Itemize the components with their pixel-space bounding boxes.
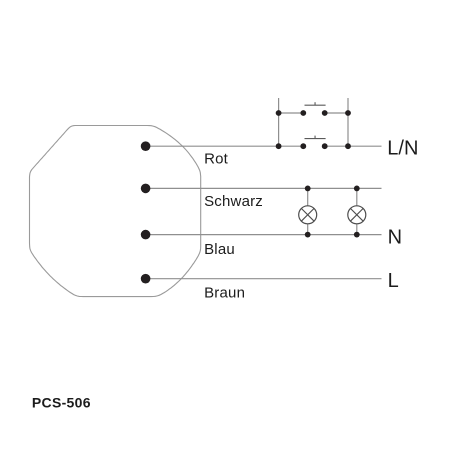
svg-text:N: N	[388, 227, 402, 249]
push-button S1 (upper branch, normally-open)	[300, 102, 327, 116]
terminal 1 Rot	[141, 141, 151, 151]
junction: switch branch left top	[276, 110, 282, 116]
junction: lamp E1 top	[305, 186, 311, 192]
svg-text:Rot: Rot	[204, 150, 229, 167]
junction: switch branch right on L/N line	[345, 143, 351, 149]
wire upper switch branch rail (right segment from S1)	[325, 112, 348, 114]
wire upper switch branch rail (left segment to S1)	[279, 112, 304, 114]
junction: lamp E2 bottom	[354, 232, 360, 238]
terminal 3 Blau	[141, 230, 151, 240]
terminal 2 Schwarz	[141, 184, 151, 194]
lamp E2	[348, 188, 366, 234]
wire left vertical of switch branch (with stub above)	[278, 98, 280, 146]
wire Rot (L/N line, left segment to push-button S2)	[146, 145, 304, 147]
junction: switch branch right top	[345, 110, 351, 116]
junction: lamp E1 bottom	[305, 232, 311, 238]
junction: lamp E2 top	[354, 186, 360, 192]
svg-text:L/N: L/N	[387, 138, 418, 160]
wire Braun (L line)	[146, 278, 382, 280]
svg-text:Blau: Blau	[204, 241, 235, 258]
wire right vertical of switch branch (with stub above)	[347, 98, 349, 146]
svg-text:Schwarz: Schwarz	[204, 193, 263, 210]
svg-text:Braun: Braun	[204, 284, 245, 301]
junction: switch branch left on L/N line	[276, 143, 282, 149]
svg-text:PCS-506: PCS-506	[32, 395, 91, 411]
wire Schwarz (lamp feed line)	[146, 187, 382, 189]
push-button S2 (on L/N line, normally-open)	[300, 136, 327, 150]
terminal 4 Braun	[141, 274, 151, 284]
wire Blau (N line)	[146, 234, 382, 236]
svg-text:L: L	[388, 270, 399, 292]
device PCS-506 outline (octagonal flush-mount receiver)	[30, 126, 201, 297]
wire Rot (L/N line, right segment from push-button S2 to L/N)	[325, 145, 382, 147]
lamp E1	[299, 188, 317, 234]
